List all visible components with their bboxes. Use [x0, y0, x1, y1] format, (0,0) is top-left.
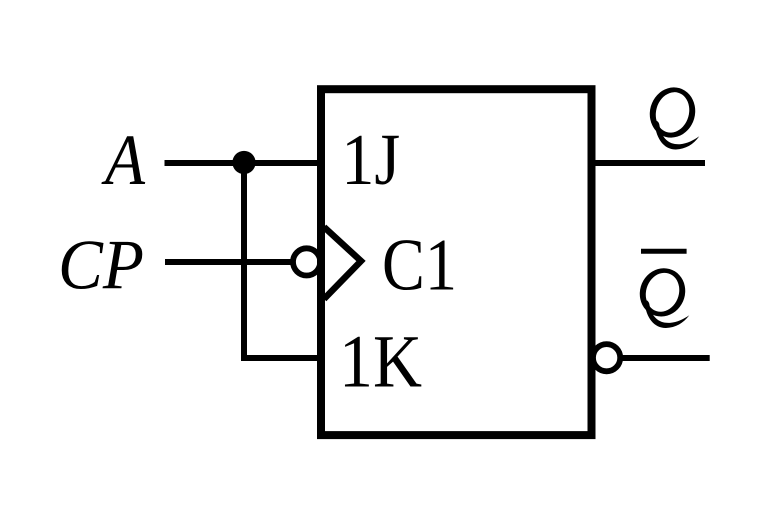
inversion bubble on Q-bar output — [593, 344, 620, 371]
wire Q-bar output — [622, 355, 710, 361]
clock edge triangle C1 — [324, 227, 361, 299]
svg-text:C1: C1 — [382, 225, 457, 307]
flip-flop box U1 — [321, 89, 592, 435]
output label Q — [644, 82, 701, 150]
wire junction down to 1K pin — [244, 163, 319, 358]
node junction dot on A line — [232, 151, 255, 174]
wire A input — [165, 160, 322, 166]
svg-text:1J: 1J — [341, 119, 400, 200]
wire CP input — [165, 259, 292, 265]
wire Q output — [595, 160, 705, 166]
svg-text:A: A — [101, 121, 145, 200]
output label Q-bar — [634, 251, 691, 328]
svg-text:CP: CP — [58, 227, 144, 305]
inversion bubble on CP input — [293, 248, 320, 275]
svg-text:1K: 1K — [339, 321, 422, 404]
